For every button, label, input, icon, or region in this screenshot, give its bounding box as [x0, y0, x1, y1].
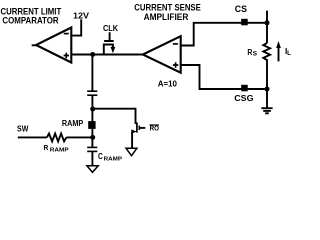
wire RAMP vertical — [91, 109, 93, 147]
svg-text:CSG: CSG — [234, 93, 254, 103]
svg-text:SW: SW — [17, 124, 29, 134]
node junction above RAMP pad — [90, 107, 95, 112]
capacitor CRAMP — [87, 147, 97, 165]
pad CS — [241, 19, 248, 26]
label CRAMP — [98, 152, 122, 163]
wire U2 minus input to CS line — [181, 23, 267, 46]
node junction RAMP/SW — [90, 135, 95, 140]
svg-text:A=10: A=10 — [158, 79, 178, 88]
wire RRAMP to junction — [66, 136, 92, 138]
ground signal three-bar below CSG — [261, 108, 272, 113]
transistor Q2 RO switch — [131, 122, 145, 148]
label RRAMP — [44, 145, 69, 154]
resistor RS — [263, 43, 270, 63]
svg-text:RAMP: RAMP — [50, 148, 69, 154]
resistor RRAMP — [47, 134, 67, 142]
capacitor C1 — [87, 91, 97, 109]
wire branch to Q2 drain — [93, 109, 136, 124]
U2 plus input label — [173, 62, 178, 67]
label RO inverted — [150, 125, 159, 132]
pad RAMP — [88, 121, 95, 129]
wire right rail top — [266, 11, 268, 43]
wire U1 output stub — [32, 44, 37, 46]
label CURRENT SENSE AMPLIFIER — [134, 2, 201, 22]
svg-text:RAMP: RAMP — [62, 118, 83, 128]
node CS junction — [265, 20, 270, 25]
label CURRENT LIMIT COMPARATOR — [1, 6, 62, 26]
U1 plus input label — [64, 53, 69, 58]
wire main node: U1 plus input to U2 output — [71, 54, 143, 56]
op-amp U2 current sense amplifier — [143, 36, 181, 72]
label RS — [247, 47, 257, 57]
svg-text:C: C — [98, 152, 103, 162]
U2 minus input label — [173, 43, 178, 45]
svg-text:COMPARATOR: COMPARATOR — [2, 15, 58, 26]
transistor Q1 CLK pass switch — [104, 32, 116, 54]
op-amp U1 current limit comparator — [36, 28, 71, 63]
wire junction down to capacitor C1 — [91, 55, 93, 92]
node CSG junction — [265, 87, 270, 92]
svg-text:CLK: CLK — [103, 23, 118, 33]
svg-text:12V: 12V — [73, 11, 89, 21]
U1 minus input label — [64, 33, 69, 35]
wire U1 minus input to 12V — [71, 19, 81, 35]
svg-text:L: L — [287, 50, 291, 57]
svg-text:R: R — [44, 145, 49, 152]
ground open triangle below Q2 — [126, 148, 137, 155]
wire U2 plus input to CSG line — [181, 65, 267, 89]
wire right rail bottom — [266, 63, 268, 109]
ground open triangle below CRAMP — [87, 166, 98, 173]
svg-text:RO: RO — [150, 125, 159, 132]
svg-text:S: S — [253, 50, 258, 57]
label IL — [285, 47, 291, 57]
wire SW input — [18, 136, 47, 138]
pad CSG — [241, 85, 248, 92]
svg-text:AMPLIFIER: AMPLIFIER — [144, 12, 189, 22]
node junction main/RAMP — [90, 52, 95, 57]
svg-text:CS: CS — [235, 4, 247, 14]
svg-text:RAMP: RAMP — [104, 157, 122, 163]
current arrow IL — [278, 47, 280, 61]
